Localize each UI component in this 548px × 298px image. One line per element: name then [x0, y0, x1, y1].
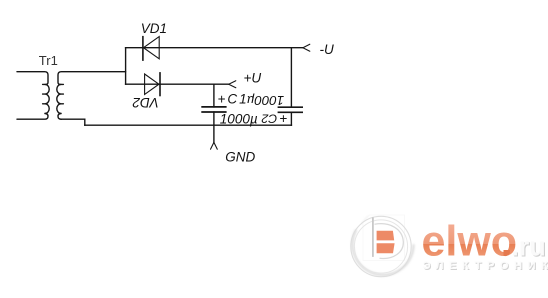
svg-text:C2: C2 [261, 112, 277, 126]
svg-text:GND: GND [225, 149, 255, 164]
svg-text:.ru: .ru [511, 231, 546, 261]
svg-text:1000µ: 1000µ [220, 111, 258, 126]
svg-text:+: + [279, 111, 287, 126]
svg-text:VD1: VD1 [141, 21, 167, 36]
svg-text:elwo: elwo [422, 217, 518, 265]
svg-text:VD2: VD2 [132, 95, 159, 110]
svg-text:Tr1: Tr1 [39, 53, 58, 68]
svg-text:1000µ: 1000µ [247, 93, 285, 108]
svg-text:+C1: +C1 [218, 91, 249, 106]
svg-text:+U: +U [244, 70, 262, 85]
svg-text:-U: -U [320, 42, 334, 57]
